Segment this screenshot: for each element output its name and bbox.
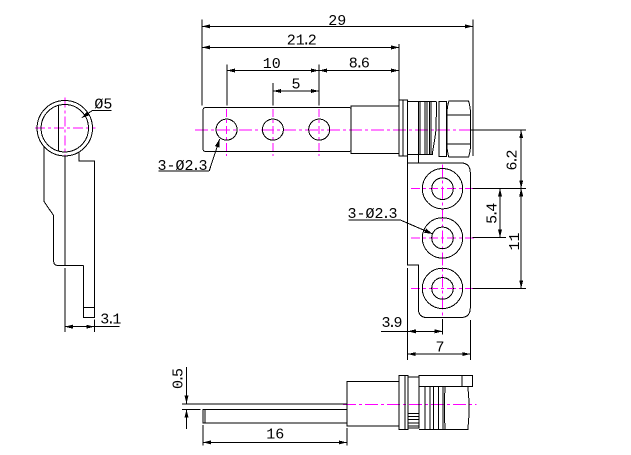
boss C outer circle <box>422 268 462 308</box>
svg-text:5.4: 5.4 <box>485 203 502 224</box>
hole A inner circle <box>432 178 454 200</box>
dimension line 29 <box>202 25 473 27</box>
dimension line 10 and 8.6 <box>227 70 399 72</box>
dim 10 left arrow <box>227 69 235 73</box>
extension line side center <box>64 268 66 332</box>
bottom view ribs bottom edge <box>419 428 444 430</box>
bottom view hex top edge <box>445 385 468 387</box>
hole H2 <box>262 119 283 140</box>
neck box below band <box>408 155 419 163</box>
extension line hole2 <box>272 83 274 105</box>
extension line hole3 <box>318 65 320 106</box>
bottom view hex left edge <box>443 386 446 429</box>
svg-text:0.5: 0.5 <box>170 368 187 389</box>
extension line side pin right <box>93 320 95 332</box>
top view bar <box>203 108 351 152</box>
extension line arm right bottom <box>469 320 471 360</box>
centerline vertical arm axis <box>442 165 444 318</box>
dimension line 5.4 <box>499 188 501 237</box>
collar strip <box>439 101 446 156</box>
dim 3.1 right arrow <box>86 325 94 329</box>
dim 11 top arrow <box>519 188 523 196</box>
svg-text:6.2: 6.2 <box>504 149 521 170</box>
extension line 16 right <box>346 428 348 446</box>
svg-text:8.6: 8.6 <box>349 56 370 73</box>
leader 3-d2.3 arm underline <box>348 219 400 221</box>
bottom view bar cap line <box>204 409 206 422</box>
bottom view rib 2 <box>429 386 431 429</box>
dim 16 left arrow <box>203 440 211 444</box>
centerline bottom view horizontal axis <box>343 403 477 405</box>
boss A outer circle <box>422 169 462 209</box>
centerline hole 3 vertical <box>318 109 320 156</box>
dim 5.4 bottom arrow <box>498 230 502 238</box>
dim 3.9 right arrow <box>435 329 443 333</box>
leader arrow circle d5 <box>82 111 90 118</box>
hole C inner circle <box>432 278 454 300</box>
cylinder section <box>351 106 399 153</box>
rib line 1 <box>419 102 421 155</box>
ribbed section top edge <box>418 101 436 103</box>
extension line left of 29 <box>201 19 203 105</box>
boss B outer circle <box>422 218 462 258</box>
extension line 21.2 right <box>398 44 400 99</box>
leader arrow hole arm view <box>424 229 432 234</box>
bottom view hex bottom edge <box>444 429 468 431</box>
extension line arm hole A <box>473 187 526 189</box>
leader d5 diagonal <box>82 111 92 118</box>
dim 7 left arrow <box>408 352 416 356</box>
svg-text:3.1: 3.1 <box>100 311 121 328</box>
thread hatch 1 <box>408 413 419 415</box>
bottom view flange inner line <box>404 376 406 430</box>
leader arrow hole top view <box>215 139 220 147</box>
bottom view top face line <box>182 403 347 405</box>
svg-text:16: 16 <box>266 426 284 443</box>
flange ring <box>399 100 408 156</box>
extension line 16 left <box>202 425 204 446</box>
extension line arm hole C <box>473 287 526 289</box>
thread hatch 5 <box>408 425 419 427</box>
dim 5.4 top arrow <box>498 188 502 196</box>
dim 8.6 left arrow <box>319 69 327 73</box>
dim 21.2 right arrow <box>391 45 399 49</box>
leader 3-d2.3 top underline <box>159 170 210 172</box>
dim 7 right arrow <box>462 352 470 356</box>
svg-text:3-Ø2.3: 3-Ø2.3 <box>158 158 208 175</box>
bottom view hex right edge <box>468 386 469 430</box>
bottom view top band <box>419 376 473 387</box>
ribbed section bottom edge <box>418 154 433 156</box>
band ring <box>408 102 419 155</box>
dim 0.5 upper arrow <box>185 396 189 404</box>
centerline side view vertical <box>64 98 66 159</box>
side view body left profile <box>44 146 83 265</box>
leader 3-d2.3 arm diagonal <box>401 220 433 234</box>
hole B inner circle <box>432 227 454 249</box>
hex facet line lower <box>447 143 471 145</box>
dim 8.6 right arrow <box>391 69 399 73</box>
svg-text:Ø5: Ø5 <box>94 96 112 113</box>
bottom view top band divider <box>461 376 463 387</box>
bottom view rib 4 <box>438 386 440 429</box>
dimension line 6.2 <box>520 130 522 188</box>
side view chord edge <box>58 106 60 151</box>
centerline top view horizontal axis <box>195 129 471 131</box>
dimension line 3.9 <box>381 330 443 332</box>
dimension line 16 <box>203 441 347 443</box>
bottom view rib 1 <box>424 386 426 429</box>
centerline arm hole A horizontal <box>411 188 474 190</box>
svg-text:10: 10 <box>263 56 281 73</box>
svg-text:29: 29 <box>328 13 346 30</box>
dim 16 right arrow <box>339 440 347 444</box>
side view body right profile <box>79 152 94 317</box>
dimension line 5 <box>273 90 319 92</box>
flange inner line <box>402 100 404 156</box>
dimension line 7 <box>408 353 471 355</box>
extension line right of 29 <box>472 19 474 155</box>
dim 3.9 left arrow <box>408 329 416 333</box>
svg-text:3-Ø2.3: 3-Ø2.3 <box>348 206 398 223</box>
dim 11 bottom arrow <box>519 280 523 288</box>
dim 0.5 lower arrow <box>185 409 189 417</box>
svg-text:21.2: 21.2 <box>287 32 317 49</box>
dimension line 11 <box>520 188 522 288</box>
svg-text:3.9: 3.9 <box>382 315 403 332</box>
extension line arm left lower <box>407 268 409 360</box>
dim 5 right arrow <box>311 89 319 93</box>
dimension line 0.5 upper <box>186 367 188 404</box>
dim 5 left arrow <box>273 89 281 93</box>
side view inner edge line <box>64 156 66 265</box>
dim 29 right arrow <box>465 24 473 28</box>
side view outer circle <box>37 101 92 156</box>
dim 3.1 left arrow <box>65 325 73 329</box>
bottom view flange <box>399 376 408 430</box>
svg-text:11: 11 <box>507 232 524 250</box>
dim 10 right arrow <box>311 69 319 73</box>
dimension line 3.1 <box>65 326 120 328</box>
dim 6.2 bottom arrow <box>519 180 523 188</box>
extension line 6.2 top <box>471 129 526 131</box>
dimension line 0.5 lower <box>186 409 188 429</box>
extension line hole1 <box>226 65 228 106</box>
hex nut outline <box>447 101 471 157</box>
centerline hole 2 vertical <box>272 109 274 156</box>
centerline arm hole C horizontal <box>411 287 474 289</box>
leader 3-d2.3 top diagonal <box>209 139 219 171</box>
dim 29 left arrow <box>202 24 210 28</box>
bottom view thin bar <box>203 409 347 422</box>
extension line arm hole B <box>473 237 506 239</box>
bottom view thread strip <box>408 377 419 428</box>
side view pin end line <box>83 307 94 309</box>
hex facet line upper <box>447 114 471 116</box>
centerline side view horizontal <box>35 127 96 129</box>
thread hatch 3 <box>408 419 419 421</box>
extension line arm centerline bottom <box>442 319 444 335</box>
dimension line 21.2 <box>202 46 399 48</box>
taper silhouette <box>432 102 436 154</box>
hole H1 <box>216 119 237 140</box>
extension line 0.5 lower <box>182 408 201 410</box>
bottom view rib 5 <box>442 386 444 429</box>
rib line 4 <box>429 102 431 155</box>
dim 21.2 left arrow <box>202 45 210 49</box>
side view inner circle <box>41 105 88 152</box>
rib line 2 <box>424 102 426 155</box>
arrows <box>65 24 523 444</box>
centerline arm hole B horizontal <box>411 237 474 239</box>
hole H3 <box>309 119 330 140</box>
centerline hole 1 vertical <box>226 109 228 156</box>
bottom view rib 3 <box>432 386 434 429</box>
rib line 5 <box>430 102 432 155</box>
rib line 3 <box>426 102 428 155</box>
thread hatch 2 <box>408 416 419 418</box>
bottom view block <box>347 381 399 426</box>
vertical arm outline <box>408 163 471 318</box>
svg-text:7: 7 <box>435 340 444 357</box>
leader d5 landing <box>92 110 111 112</box>
thread hatch 4 <box>408 422 419 424</box>
svg-text:5: 5 <box>291 77 300 94</box>
dim 6.2 top arrow <box>519 130 523 138</box>
